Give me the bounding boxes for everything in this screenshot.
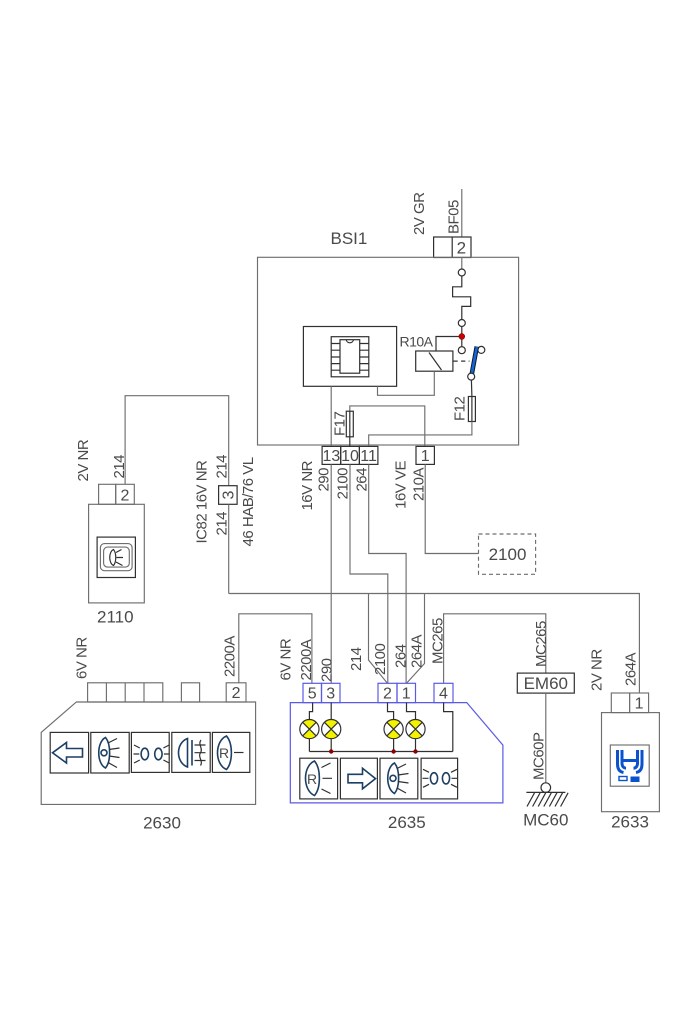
2630 icon box: low beam [91, 732, 129, 773]
svg-text:2100: 2100 [372, 643, 389, 675]
svg-text:290: 290 [319, 658, 336, 682]
wire: BSI pin 13 to 2635 pin 3 (net 290) [330, 464, 332, 683]
BSI pin 10 box [341, 446, 360, 464]
2630 connector single [181, 683, 199, 702]
svg-text:2: 2 [457, 239, 466, 258]
2635 pin 4 box [434, 683, 453, 702]
wire: battery feed BF05 down to BSI connector [461, 189, 463, 237]
2630 icon box: rear fog lamp [212, 732, 249, 772]
BSI1 unit box [258, 257, 519, 445]
splice EM60 box [517, 673, 574, 693]
wire: BSI pin 11 to 2635 pin 1 (net 264) [369, 464, 406, 683]
IC pins left [331, 344, 340, 371]
svg-text:F12: F12 [452, 396, 469, 421]
wire: IC to BSI pin 13 [330, 386, 332, 446]
2635 icon box: low beam [380, 758, 418, 799]
IC pins right [360, 344, 369, 371]
2110 lamp glyph [110, 550, 116, 566]
svg-text:MC265: MC265 [533, 621, 550, 667]
svg-text:6V NR: 6V NR [278, 638, 295, 680]
svg-text:3: 3 [326, 686, 335, 703]
wire: BSI pin 1 to 2100 (net 210A) [425, 464, 478, 553]
svg-text:2100: 2100 [489, 545, 527, 564]
svg-text:R: R [307, 771, 317, 787]
svg-text:BSI1: BSI1 [331, 229, 368, 248]
svg-text:R: R [219, 745, 229, 761]
unit 2630 body [41, 702, 255, 804]
svg-text:5: 5 [308, 686, 317, 703]
wire: junction to switch contact [461, 339, 463, 346]
ground contact circle [541, 783, 551, 793]
connector boxes on 2110 [99, 484, 116, 504]
2635 icon box: turn right arrow [340, 758, 377, 799]
2630 icon box: front fog lamp [172, 732, 210, 772]
wire: 2110 pin 2 up and over to splice 3 [125, 396, 229, 486]
wire: EM60 to ground [545, 693, 547, 783]
svg-text:16V NR: 16V NR [299, 460, 316, 510]
svg-text:2110: 2110 [97, 608, 134, 627]
svg-text:IC82 16V NR: IC82 16V NR [194, 460, 211, 544]
lamp 1 (turn indicator bulb) [308, 739, 310, 752]
electronic control unit (IC) outer box [303, 327, 396, 387]
svg-text:2V NR: 2V NR [75, 439, 92, 481]
2635 pin 5 box [303, 683, 322, 702]
svg-text:2: 2 [121, 487, 130, 504]
svg-text:214: 214 [214, 512, 231, 536]
2110 courtesy lamp icon frame [97, 537, 135, 577]
lamp 4 [415, 739, 417, 752]
svg-text:2V NR: 2V NR [589, 649, 606, 691]
2635 icon box: rear fog (R) [300, 758, 338, 799]
svg-text:214: 214 [214, 455, 231, 479]
2633 icon frame [610, 745, 649, 786]
svg-text:13: 13 [323, 448, 341, 465]
svg-text:11: 11 [360, 448, 377, 465]
2630 connector group [88, 683, 163, 702]
IC inner frame [331, 337, 369, 377]
svg-text:MC60: MC60 [523, 811, 568, 830]
svg-text:46 HAB/76 VL: 46 HAB/76 VL [240, 457, 257, 546]
svg-text:16V VE: 16V VE [393, 461, 410, 509]
svg-text:BF05: BF05 [446, 200, 463, 234]
svg-text:290: 290 [316, 468, 333, 492]
svg-text:2: 2 [232, 685, 241, 702]
wire: bus tap 264A to 2635 pin 1 (diagonal) [406, 594, 424, 684]
BSI pin 11 box [359, 446, 378, 464]
2635 pin 2 box [378, 683, 397, 702]
svg-text:2630: 2630 [143, 814, 181, 833]
lamp bus [309, 751, 452, 753]
unit 2110 body [89, 504, 145, 603]
svg-text:264A: 264A [409, 634, 426, 668]
IC chip body [340, 340, 360, 374]
svg-text:2: 2 [383, 686, 392, 703]
svg-text:R10A: R10A [400, 334, 434, 350]
wire: into BSI from connector [461, 258, 463, 270]
svg-text:2200A: 2200A [222, 636, 239, 677]
switch fixed contact (open circle) [458, 347, 465, 354]
connector 2-pin box on BSI top [434, 237, 471, 258]
unit 2100 (dashed box) [479, 534, 536, 574]
BSI pin 13 box [322, 446, 341, 464]
svg-text:264: 264 [354, 468, 371, 492]
unit 2635 body (blue) [290, 703, 503, 803]
svg-text:2100: 2100 [335, 468, 352, 500]
svg-text:EM60: EM60 [524, 674, 568, 693]
splice node (open circle) [458, 320, 465, 327]
2630 pin 2 box [226, 683, 246, 702]
ground MC60 symbol [526, 791, 565, 793]
2630 icon box: turn left arrow [50, 732, 88, 773]
2635 icon box: position lamps [421, 758, 458, 799]
wire: pin 1 to lamp 4 [407, 703, 416, 720]
wire to junction [461, 327, 463, 334]
svg-text:MC60P: MC60P [531, 732, 548, 780]
wire 2200A: 2630 pin 2 to 2635 pin 5 [239, 614, 312, 684]
svg-text:264: 264 [393, 644, 410, 668]
wire: switch to fuse F12 [470, 380, 473, 396]
svg-text:1: 1 [402, 686, 411, 703]
relay actuation dashed link [454, 360, 470, 362]
splice node (open circle) [458, 269, 465, 276]
svg-text:1: 1 [421, 448, 430, 465]
wire: BSI pin 10 to 2635 pin 2 (net 2100) [350, 464, 388, 683]
svg-text:2V GR: 2V GR [411, 192, 428, 235]
unit 2633 body [602, 713, 660, 812]
BSI pin 1 box [416, 446, 434, 464]
splice box 3 [219, 486, 238, 505]
relay R10A coil box [416, 351, 453, 371]
wire: splice 3 down to bus [228, 504, 230, 593]
lamp 2 [330, 739, 332, 752]
svg-text:2200A: 2200A [298, 639, 315, 680]
wire: F17 top to BSI pin 1 [350, 406, 425, 447]
wire: F12 to BSI pin 11 [369, 422, 472, 447]
junction dots on lamp bus [329, 749, 333, 753]
svg-text:6V NR: 6V NR [74, 637, 91, 679]
bus wire 214/264A: splice 3 to 2633 [229, 594, 640, 694]
2633 connector boxes [611, 693, 629, 713]
wire: junction to relay R10A coil [436, 337, 459, 351]
svg-text:MC265: MC265 [430, 618, 447, 664]
svg-text:214: 214 [348, 647, 365, 671]
wire: bus tap 214 to 2635 pin 2 (diagonal) [369, 594, 388, 684]
switch blade pivot circle [478, 346, 485, 353]
IC chip notch [346, 340, 353, 343]
switch bottom contact (open circle) [468, 373, 475, 380]
wire: pin 2 to lamp 3 [388, 703, 394, 720]
wire: pin 4 to lamp bus [444, 703, 453, 752]
2635 pin 1 box [397, 683, 416, 702]
svg-text:4: 4 [439, 686, 448, 703]
svg-text:1: 1 [635, 696, 644, 713]
svg-text:2635: 2635 [388, 813, 426, 832]
fuse F17 [349, 411, 351, 446]
2635 pin 3 box [322, 683, 341, 702]
svg-text:2633: 2633 [611, 813, 649, 832]
wire: pin 3 to lamp 2 [330, 703, 332, 720]
wire jog symbol (double step) [453, 276, 471, 320]
relay diagonal [429, 353, 442, 371]
wire: relay coil to IC [378, 371, 435, 395]
wire: pin 5 to lamp 1 [309, 703, 312, 720]
2630 icon box: position lamps [131, 732, 169, 772]
2633 cigar lighter glyph (blue) [618, 750, 627, 773]
svg-text:10: 10 [341, 448, 359, 465]
junction dot (red) [459, 334, 465, 340]
svg-text:264A: 264A [623, 652, 640, 686]
switch blade (blue) [472, 347, 477, 374]
fuse F12 [471, 397, 473, 422]
wire MC265: 2635 pin 4 to ground MC60 [444, 614, 546, 684]
svg-text:3: 3 [221, 490, 238, 499]
lamp 3 [393, 739, 395, 752]
